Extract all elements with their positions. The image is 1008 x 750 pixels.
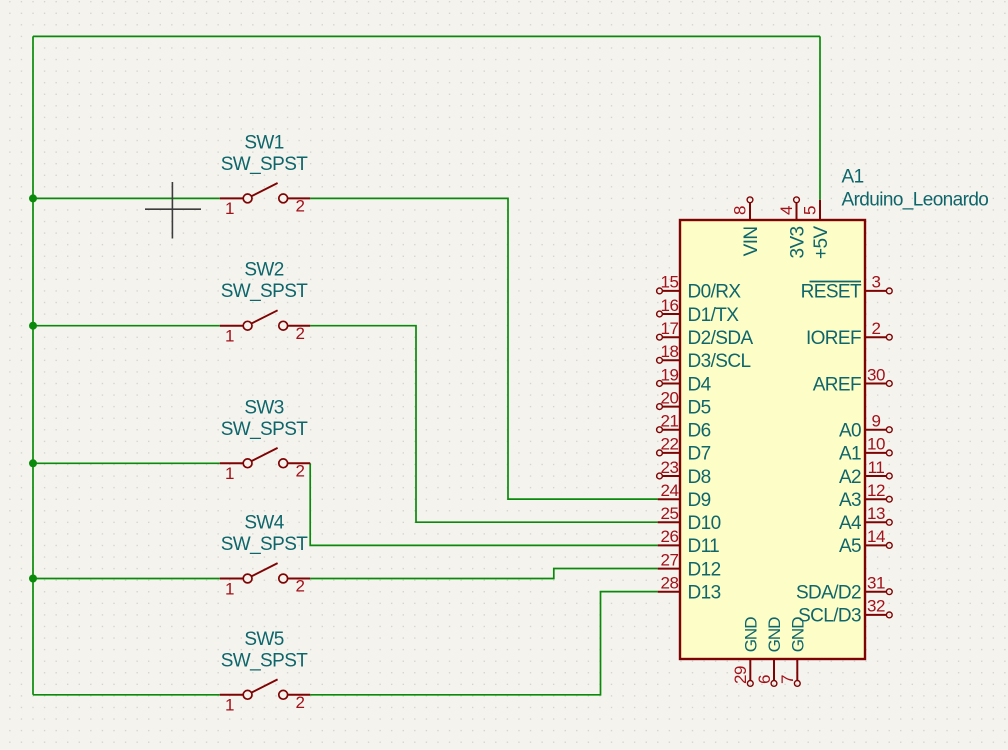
svg-text:2: 2 [296,693,305,712]
svg-text:D8: D8 [688,467,711,488]
switch SW4 (SW_SPST) [220,563,310,583]
svg-text:SW2: SW2 [244,260,283,281]
svg-text:1: 1 [225,199,234,218]
svg-text:D2/SDA: D2/SDA [688,328,754,349]
svg-text:IOREF: IOREF [806,328,861,349]
svg-text:D9: D9 [688,490,711,511]
pin 7 (GND) bottom side GND [778,617,807,687]
svg-text:1: 1 [225,579,234,598]
wire: vertical drop into +5V pin 5 [819,36,821,199]
svg-text:D11: D11 [688,536,720,557]
label SW1 value SW_SPST [221,154,309,175]
svg-text:2: 2 [296,462,305,481]
wire: bus to SW4 pin 1 [33,578,220,580]
switch SW1 pin number 1 [225,199,234,218]
svg-text:SW5: SW5 [244,629,283,650]
svg-text:7: 7 [778,675,797,684]
switch SW4 pin number 1 [225,579,234,598]
svg-text:25: 25 [661,504,679,523]
wire: bus to SW1 pin 1 [33,197,220,199]
svg-text:12: 12 [867,481,885,500]
pin 2 (IOREF) right side [806,319,892,349]
wire: bus to SW3 pin 1 [33,462,220,464]
pin 21 (D6) left side [657,412,711,442]
wire: SW1 pin2 to D9 (pin 24) [310,198,658,499]
svg-text:D3/SCL: D3/SCL [688,351,751,372]
label SW3 value SW_SPST [221,419,309,440]
pin 31 (SDA/D2) right side [796,574,892,604]
svg-text:17: 17 [661,319,679,338]
switch SW3 (SW_SPST) [220,448,310,468]
svg-text:8: 8 [731,206,750,215]
svg-text:VIN: VIN [741,227,762,257]
label SW2 reference [244,260,283,281]
svg-text:+5V: +5V [811,226,832,259]
svg-text:D1/TX: D1/TX [688,305,740,326]
svg-text:2: 2 [872,319,881,338]
svg-text:Arduino_Leonardo: Arduino_Leonardo [842,190,989,211]
pin 18 (D3/SCL) left side [657,342,751,372]
wire: +5V bus vertical left side [32,36,34,694]
svg-text:30: 30 [867,365,885,384]
svg-text:D13: D13 [688,583,721,604]
switch SW1 pin number 2 [296,197,305,216]
label SW4 reference [244,513,284,534]
svg-text:2: 2 [296,197,305,216]
pin 27 (D12) left side [658,550,721,580]
svg-text:SW_SPST: SW_SPST [221,650,309,671]
svg-text:26: 26 [661,527,679,546]
wire: SW2 pin2 to D10 (pin 25) [310,326,658,523]
svg-text:SW_SPST: SW_SPST [221,419,309,440]
pin 12 (A3) right side [839,481,892,511]
label A1 reference [842,167,864,188]
svg-text:SW_SPST: SW_SPST [221,154,309,175]
svg-text:1: 1 [225,327,234,346]
IC A1 Arduino_Leonardo body [680,220,865,659]
svg-text:28: 28 [661,574,679,593]
svg-text:D12: D12 [688,559,721,580]
svg-text:SDA/D2: SDA/D2 [796,583,861,604]
svg-text:24: 24 [661,481,679,500]
pin 4 (3V3) top side [777,197,808,259]
svg-text:SW1: SW1 [244,132,283,153]
switch SW5 (SW_SPST) [220,679,310,699]
svg-text:A1: A1 [842,167,864,188]
svg-text:23: 23 [661,458,679,477]
svg-text:D6: D6 [688,421,711,442]
pin 5 (+5V) top side [801,200,832,259]
svg-text:SW_SPST: SW_SPST [221,281,309,302]
svg-text:27: 27 [661,550,679,569]
svg-text:21: 21 [661,412,679,431]
svg-text:4: 4 [777,206,796,215]
svg-text:20: 20 [661,388,679,407]
switch SW4 pin number 2 [296,577,305,596]
pin 11 (A2) right side [839,458,892,488]
svg-text:GND: GND [742,617,761,653]
wire: bus to SW5 pin 1 [33,694,220,696]
label Arduino_Leonardo value [842,190,989,211]
svg-text:1: 1 [225,464,234,483]
pin 29 (GND) bottom side GND [731,617,760,687]
label SW5 value SW_SPST [221,650,309,671]
switch SW3 pin number 2 [296,462,305,481]
label SW5 reference [244,629,283,650]
svg-text:D4: D4 [688,374,712,395]
svg-text:5: 5 [801,206,820,215]
svg-text:32: 32 [867,597,885,616]
switch SW2 pin number 2 [296,324,305,343]
svg-text:D0/RX: D0/RX [688,282,742,303]
junction: bus at SW4 [29,575,37,583]
pin 13 (A4) right side [839,504,892,534]
pin 26 (D11) left side [658,527,719,557]
svg-text:A4: A4 [839,513,862,534]
pin 15 (D0/RX) left side [657,273,742,303]
pin 22 (D7) left side [657,435,711,465]
svg-text:6: 6 [755,675,774,684]
pin 30 (AREF) right side [813,365,892,395]
svg-text:A3: A3 [839,490,861,511]
label SW3 reference [244,397,283,418]
pin 16 (D1/TX) left side [657,296,740,326]
svg-text:10: 10 [867,435,885,454]
svg-text:D10: D10 [688,513,721,534]
pin 32 (SCL/D3) right side [798,597,892,627]
switch SW5 pin number 2 [296,693,305,712]
svg-text:22: 22 [661,435,679,454]
svg-text:SW3: SW3 [244,397,283,418]
pin 24 (D9) left side [658,481,711,511]
label SW2 value SW_SPST [221,281,309,302]
pin 19 (D4) left side [657,365,712,395]
pin 23 (D8) left side [657,458,711,488]
svg-text:29: 29 [731,666,750,684]
switch SW5 pin number 1 [225,696,234,715]
junction: bus at SW2 [29,322,37,330]
junction: bus at SW1 [29,194,37,202]
svg-text:A5: A5 [839,536,861,557]
pin 9 (A0) right side [839,412,892,442]
svg-text:AREF: AREF [813,374,861,395]
pin 28 (D13) left side [658,574,721,604]
svg-text:13: 13 [867,504,885,523]
wire: +5V bus top horizontal to Arduino pin 5 [33,35,820,37]
svg-text:GND: GND [789,617,808,653]
svg-text:D5: D5 [688,397,711,418]
wire: bus to SW2 pin 1 [33,325,220,327]
svg-text:3V3: 3V3 [787,226,808,258]
svg-text:9: 9 [872,412,881,431]
svg-text:18: 18 [661,342,679,361]
pin 3 (RESET) right side [801,273,893,303]
svg-text:1: 1 [225,696,234,715]
svg-text:19: 19 [661,365,679,384]
junction: bus at SW3 [29,459,37,467]
pin 14 (A5) right side [839,527,892,557]
switch SW1 (SW_SPST) [220,183,310,203]
svg-text:15: 15 [661,273,679,292]
svg-text:14: 14 [867,527,885,546]
svg-text:SW4: SW4 [244,513,284,534]
svg-text:2: 2 [296,577,305,596]
svg-text:2: 2 [296,324,305,343]
svg-text:D7: D7 [688,444,711,465]
svg-text:SW_SPST: SW_SPST [221,534,309,555]
pin 17 (D2/SDA) left side [657,319,754,349]
svg-text:A2: A2 [839,467,861,488]
wire: SW3 pin2 to D11 (pin 26) [310,463,658,545]
svg-text:31: 31 [867,574,885,593]
svg-text:GND: GND [765,617,784,653]
label SW4 value SW_SPST [221,534,309,555]
cursor crosshair [145,182,201,239]
pin 6 (GND) bottom side GND [755,617,784,687]
pin 25 (D10) left side [658,504,721,534]
label SW1 reference [244,132,283,153]
wire: SW5 pin2 to D13 (pin 28) [310,592,658,695]
svg-text:A0: A0 [839,421,861,442]
svg-text:11: 11 [868,458,885,477]
svg-text:A1: A1 [839,444,861,465]
pin 10 (A1) right side [839,435,892,465]
wire: SW4 pin2 to D12 (pin 27) [310,569,658,579]
svg-text:16: 16 [661,296,679,315]
pin 20 (D5) left side [657,388,711,418]
switch SW2 pin number 1 [225,327,234,346]
switch SW2 (SW_SPST) [220,310,310,330]
svg-text:RESET: RESET [801,282,862,303]
svg-text:3: 3 [872,273,881,292]
switch SW3 pin number 1 [225,464,234,483]
pin 8 (VIN) top side [731,197,762,256]
